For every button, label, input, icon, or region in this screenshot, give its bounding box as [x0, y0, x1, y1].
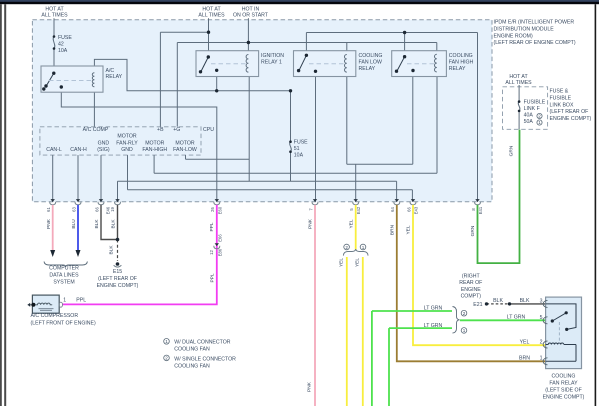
svg-text:+B: +B — [157, 127, 164, 133]
svg-text:FAN-LOW: FAN-LOW — [173, 147, 197, 153]
svg-text:26: 26 — [210, 207, 215, 212]
svg-text:(SIG): (SIG) — [97, 147, 110, 153]
svg-text:IGNITION: IGNITION — [261, 53, 284, 59]
svg-text:2: 2 — [463, 311, 466, 316]
svg-text:(LEFT FRONT OF ENGINE): (LEFT FRONT OF ENGINE) — [31, 321, 97, 327]
svg-text:W/ DUAL CONNECTOR: W/ DUAL CONNECTOR — [174, 340, 230, 346]
svg-text:1: 1 — [463, 328, 466, 333]
svg-text:YEL: YEL — [348, 219, 354, 228]
svg-text:RELAY: RELAY — [449, 66, 466, 72]
svg-text:A/C COMP: A/C COMP — [83, 127, 109, 133]
svg-text:50A: 50A — [524, 119, 534, 125]
svg-text:GND: GND — [121, 147, 133, 153]
svg-text:MOTOR: MOTOR — [145, 140, 164, 146]
svg-text:66: 66 — [95, 207, 100, 212]
svg-text:LINK BOX: LINK BOX — [550, 102, 574, 108]
svg-text:PPL: PPL — [209, 222, 215, 231]
svg-text:FAN HIGH: FAN HIGH — [449, 59, 474, 65]
svg-text:E42: E42 — [356, 206, 361, 214]
svg-text:FAN-RLY: FAN-RLY — [116, 140, 138, 146]
svg-text:1: 1 — [362, 245, 365, 250]
svg-text:ENGINE COMPT): ENGINE COMPT) — [97, 283, 139, 289]
svg-text:CPU: CPU — [203, 127, 214, 133]
svg-text:PPL: PPL — [76, 298, 86, 304]
svg-text:1: 1 — [540, 356, 543, 362]
svg-text:BLK: BLK — [111, 219, 117, 229]
svg-text:CAN-H: CAN-H — [70, 147, 87, 153]
svg-text:FUSE &: FUSE & — [550, 89, 569, 95]
svg-text:COOLING: COOLING — [449, 53, 473, 59]
svg-text:1: 1 — [165, 339, 168, 344]
svg-text:64: 64 — [390, 207, 395, 212]
svg-text:LT GRN: LT GRN — [424, 323, 443, 329]
svg-text:FUSIBLE: FUSIBLE — [524, 100, 546, 106]
svg-text:COOLING FAN: COOLING FAN — [174, 347, 210, 353]
svg-text:DATA LINES: DATA LINES — [49, 272, 79, 278]
svg-text:19: 19 — [110, 207, 115, 212]
svg-text:PNK: PNK — [308, 218, 314, 229]
svg-text:SYSTEM: SYSTEM — [53, 279, 74, 285]
svg-text:2: 2 — [345, 245, 348, 250]
svg-text:FAN-HIGH: FAN-HIGH — [142, 147, 167, 153]
svg-text:RELAY: RELAY — [106, 74, 123, 80]
svg-text:E60: E60 — [218, 206, 223, 214]
svg-text:COOLING: COOLING — [552, 374, 576, 380]
svg-text:10A: 10A — [294, 152, 304, 158]
svg-text:FUSE: FUSE — [294, 140, 308, 146]
svg-text:YEL: YEL — [354, 258, 360, 267]
svg-text:HOT AT: HOT AT — [509, 74, 528, 80]
svg-text:YEL: YEL — [406, 225, 412, 234]
svg-text:A/C: A/C — [106, 68, 115, 74]
svg-text:12: 12 — [209, 250, 214, 255]
svg-text:FAN LOW: FAN LOW — [359, 59, 382, 65]
svg-text:FUSIBLE: FUSIBLE — [550, 95, 572, 101]
svg-text:HOT AT: HOT AT — [202, 7, 221, 13]
svg-text:40A: 40A — [524, 113, 534, 119]
svg-text:RELAY: RELAY — [359, 66, 376, 72]
svg-text:IPDM E/R (INTELLIGENT POWER: IPDM E/R (INTELLIGENT POWER — [494, 20, 575, 26]
svg-text:PNK: PNK — [307, 381, 313, 392]
svg-text:10A: 10A — [58, 48, 68, 54]
svg-text:ENGINE ROOM): ENGINE ROOM) — [494, 33, 533, 39]
svg-text:E66: E66 — [218, 234, 223, 242]
svg-text:ALL TIMES: ALL TIMES — [505, 80, 532, 86]
svg-text:1: 1 — [63, 297, 66, 303]
svg-text:1: 1 — [538, 120, 541, 125]
svg-text:PPL: PPL — [210, 273, 216, 282]
svg-text:BLK: BLK — [94, 219, 100, 229]
svg-text:3: 3 — [540, 299, 543, 305]
svg-text:BLK: BLK — [520, 298, 530, 304]
svg-text:8: 8 — [471, 208, 476, 211]
svg-text:2: 2 — [538, 114, 541, 119]
svg-text:BLK: BLK — [109, 245, 115, 255]
svg-text:CAN-L: CAN-L — [46, 147, 62, 153]
svg-text:MOTOR: MOTOR — [175, 140, 194, 146]
svg-text:FAN RELAY: FAN RELAY — [549, 381, 578, 387]
svg-text:ALL TIMES: ALL TIMES — [198, 13, 225, 19]
svg-text:DISTRIBUTION MODULE: DISTRIBUTION MODULE — [494, 26, 555, 32]
svg-text:FUSE: FUSE — [58, 35, 72, 41]
svg-text:GRN: GRN — [508, 145, 514, 156]
svg-text:(LEFT SIDE OF: (LEFT SIDE OF — [545, 388, 582, 394]
svg-text:GND: GND — [98, 140, 110, 146]
svg-text:(RIGHT: (RIGHT — [462, 273, 481, 279]
svg-text:ENGINE: ENGINE — [461, 287, 481, 293]
svg-text:LT GRN: LT GRN — [424, 306, 443, 312]
svg-text:E86: E86 — [218, 248, 223, 256]
svg-text:(LEFT REAR OF ENGINE COMPT): (LEFT REAR OF ENGINE COMPT) — [494, 40, 576, 46]
svg-text:RELAY 1: RELAY 1 — [261, 59, 282, 65]
svg-text:ON OR START: ON OR START — [233, 13, 269, 19]
svg-text:W/ SINGLE CONNECTOR: W/ SINGLE CONNECTOR — [174, 356, 236, 362]
svg-text:COOLING: COOLING — [359, 53, 383, 59]
svg-text:5: 5 — [349, 208, 354, 211]
svg-text:61: 61 — [46, 207, 51, 212]
svg-text:E21: E21 — [473, 302, 482, 308]
svg-text:63: 63 — [72, 207, 77, 212]
svg-text:ENGINE COMPT): ENGINE COMPT) — [543, 395, 585, 401]
svg-text:BLK: BLK — [493, 298, 503, 304]
svg-text:COMPUTER: COMPUTER — [49, 265, 79, 271]
svg-text:BLU: BLU — [71, 219, 77, 229]
svg-text:2: 2 — [165, 356, 168, 361]
svg-text:51: 51 — [294, 146, 300, 152]
svg-text:BRN: BRN — [390, 224, 396, 235]
svg-text:(LEFT REAR OF: (LEFT REAR OF — [550, 109, 589, 115]
svg-text:MOTOR: MOTOR — [117, 134, 136, 140]
svg-text:REAR OF: REAR OF — [459, 280, 482, 286]
svg-text:HOT AT: HOT AT — [45, 7, 64, 13]
svg-text:LINK F: LINK F — [524, 106, 540, 112]
svg-text:E15: E15 — [113, 269, 122, 275]
svg-text:LT GRN: LT GRN — [507, 315, 526, 321]
svg-text:YEL: YEL — [520, 339, 530, 345]
svg-text:A/C COMPRESSOR: A/C COMPRESSOR — [31, 313, 79, 319]
svg-text:7: 7 — [308, 208, 313, 211]
svg-text:GRN: GRN — [470, 225, 476, 236]
svg-text:+G: +G — [173, 127, 180, 133]
svg-text:E41: E41 — [478, 206, 483, 214]
svg-text:BRN: BRN — [519, 356, 530, 362]
svg-text:HOT IN: HOT IN — [242, 7, 260, 13]
svg-text:ENGINE COMPT): ENGINE COMPT) — [550, 116, 592, 122]
svg-text:COMPT): COMPT) — [461, 294, 482, 300]
svg-text:PNK: PNK — [46, 218, 52, 229]
svg-text:YEL: YEL — [338, 258, 344, 267]
svg-text:2: 2 — [540, 339, 543, 345]
svg-text:5: 5 — [540, 315, 543, 321]
svg-text:E43: E43 — [414, 206, 419, 214]
svg-text:66: 66 — [406, 207, 411, 212]
svg-text:42: 42 — [58, 41, 64, 47]
svg-text:COOLING FAN: COOLING FAN — [174, 363, 210, 369]
svg-text:ALL TIMES: ALL TIMES — [41, 13, 68, 19]
svg-text:(LEFT REAR OF: (LEFT REAR OF — [98, 276, 137, 282]
